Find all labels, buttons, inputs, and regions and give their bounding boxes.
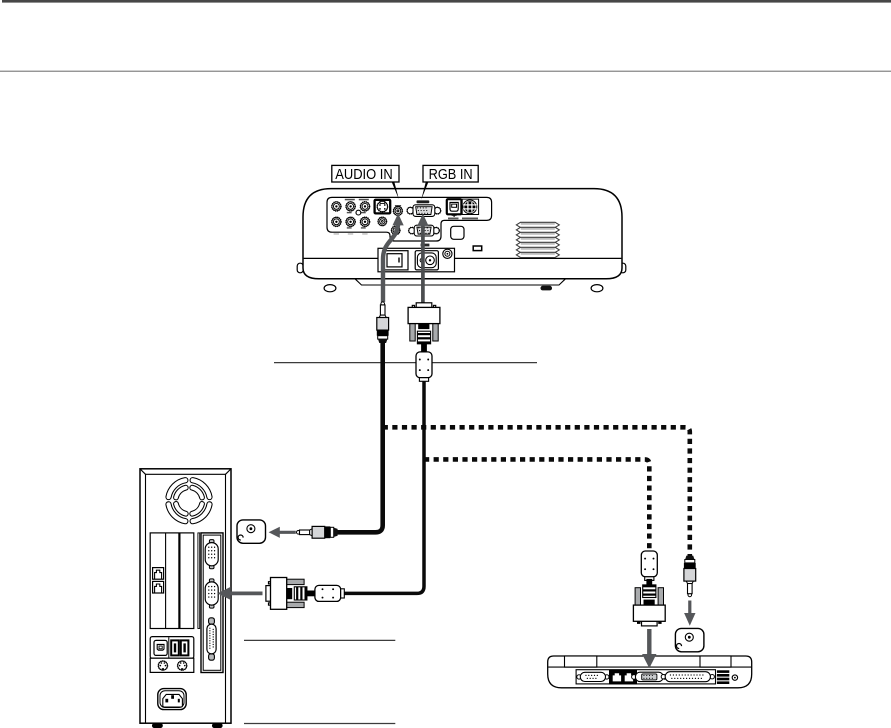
audio insertion arrowhead	[393, 213, 404, 225]
laptop hinge tab left	[565, 656, 597, 667]
LAMP tiny label	[421, 244, 430, 247]
caption line monitor cable	[244, 639, 395, 641]
power section box	[378, 248, 455, 271]
PC fan grille	[166, 478, 212, 524]
security slot	[473, 246, 482, 251]
RGB cable black vertical run	[343, 381, 424, 593]
AUDIO IN leader line	[392, 182, 399, 199]
laptop lid seam	[548, 666, 751, 668]
header bottom bar	[2, 0, 891, 3]
tower VGA port 2 (monitor)	[205, 579, 218, 608]
tiny RGB IN label on panel	[417, 200, 430, 203]
blank rounded square	[451, 226, 464, 239]
audio adapter at laptop	[675, 628, 704, 651]
laptop vents	[717, 670, 729, 684]
laptop hinge tab right	[700, 656, 731, 667]
USB tiny label	[448, 218, 459, 220]
arrow into laptop adapter	[688, 601, 691, 614]
laptop screw	[732, 675, 737, 680]
RCA component jack 2 row1	[346, 202, 355, 211]
svg-text:AUDIO IN: AUDIO IN	[335, 167, 393, 183]
RGB cable dark segment inside projector	[421, 225, 425, 304]
tower AC inlet	[158, 689, 186, 710]
tiny labels below RCA row2	[334, 233, 339, 234]
RGB IN D-sub15 connector	[407, 205, 441, 217]
tiny label above RCA 2	[345, 199, 355, 201]
screw between RCA rows	[356, 210, 361, 215]
tower parallel port	[207, 618, 216, 660]
USB port A2	[181, 640, 189, 655]
audio out minijack	[391, 226, 400, 235]
laptop port recess	[576, 670, 715, 684]
projector bottom seam	[304, 257, 622, 259]
tower left foot	[152, 723, 163, 728]
PC tower inner bevel	[140, 469, 230, 723]
RCA video/component jack 1 row1	[332, 202, 341, 211]
PC tower outer case	[140, 469, 231, 723]
USB port A1	[171, 640, 179, 655]
arrow into PC adapter	[279, 531, 296, 534]
laptop serial port	[577, 672, 609, 681]
VGA cable plug at PC	[266, 578, 316, 610]
RCA component jack 3 row1	[360, 202, 369, 211]
dashed RGB cable to laptop	[424, 459, 649, 550]
connector recess panel	[327, 197, 492, 241]
laptop VGA port	[632, 672, 667, 681]
RGB IN label box	[423, 165, 478, 183]
audio mini plug below projector	[377, 302, 389, 343]
header rule	[0, 71, 891, 72]
vent grille	[516, 222, 559, 257]
RCA audio R jack row2	[360, 217, 369, 226]
RCA video jack 1 row2	[332, 217, 341, 226]
arrow into laptop VGA port	[647, 629, 651, 655]
projector right hook	[620, 263, 626, 273]
ferrite bead above laptop VGA plug	[641, 551, 657, 580]
svg-text:RGB IN: RGB IN	[429, 167, 473, 183]
audio adapter at PC	[237, 520, 266, 543]
audio cable gray segment inside projector	[383, 223, 398, 302]
PS/2 port 1	[158, 661, 167, 670]
chassis screw	[443, 249, 452, 258]
dashed audio cable to laptop	[383, 427, 690, 556]
laptop VGA plug (pointing down)	[633, 579, 665, 626]
S-Video connector	[375, 200, 391, 214]
projector right foot	[591, 285, 603, 292]
AUDIO IN label box	[332, 165, 399, 183]
arrow into tower VGA port	[230, 592, 263, 596]
USB logo square	[154, 640, 167, 655]
PS/2 section	[150, 658, 194, 672]
minijack below S-Video	[378, 217, 387, 226]
tower right foot	[212, 723, 223, 728]
laptop body	[548, 656, 752, 688]
PC CONTROL DIN connector	[462, 199, 478, 214]
caption line bottom	[244, 723, 395, 725]
RJ45 jack upper	[153, 568, 164, 580]
projector left hook	[297, 263, 303, 273]
tiny label above RCA 3	[359, 199, 369, 201]
RGB insertion arrowhead	[417, 214, 428, 226]
tiny AUDIO labels mid rows	[347, 212, 352, 213]
ferrite bead at PC	[315, 585, 344, 601]
RGB VGA plug below projector	[408, 303, 440, 353]
RCA audio L jack row2	[346, 217, 355, 226]
PC CONTROL tiny label	[462, 218, 478, 220]
AUDIO IN minijack	[393, 206, 402, 215]
I/O column	[201, 533, 223, 673]
audio mini plug at PC	[297, 526, 338, 538]
laptop parallel port	[661, 672, 714, 682]
USB section	[150, 637, 194, 659]
tiny label above AUDIO IN jack	[395, 205, 401, 207]
projector dark foot	[541, 286, 553, 291]
AC inlet	[415, 251, 438, 270]
expansion slot area	[150, 533, 194, 629]
audio cable black vertical run	[337, 341, 383, 533]
USB port	[447, 199, 462, 217]
RGB OUT D-sub15 connector	[409, 225, 440, 236]
PS/2 port 2	[178, 661, 187, 670]
RJ45 jack lower	[153, 581, 164, 593]
caption line RGB cable	[274, 362, 537, 364]
projector left foot	[324, 285, 336, 292]
RGB ferrite bead below plug	[416, 352, 432, 381]
projector bottom lip	[355, 279, 566, 285]
tower VGA port 1	[205, 540, 218, 569]
main power switch	[383, 251, 408, 270]
audio mini plug at laptop (pointing down)	[684, 556, 696, 597]
laptop modem jacks	[610, 670, 637, 683]
RGB IN leader line	[421, 182, 428, 200]
slot rail	[198, 533, 200, 629]
projector body	[303, 189, 622, 279]
